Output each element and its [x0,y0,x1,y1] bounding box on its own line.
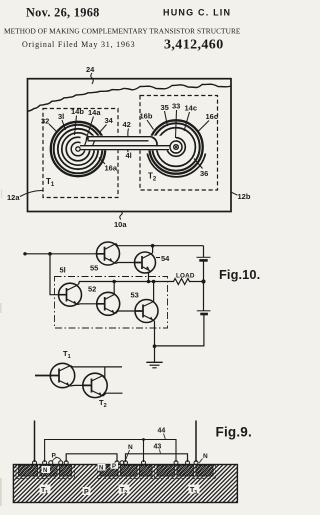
wire B2 down and left along bottom rail [155,314,204,346]
svg-text:N: N [128,444,133,451]
svg-text:54: 54 [161,254,170,263]
wire T2 collector up to rail [103,367,105,377]
svg-text:5l: 5l [60,266,66,275]
wire Q52 collector up to output rail [113,282,115,295]
svg-text:14b: 14b [71,107,84,116]
wire resistor to battery column [192,281,204,283]
label T1 (equiv) [63,349,71,360]
header date [26,5,100,19]
input terminal [23,252,26,255]
node output rail dot at Q52 [112,280,116,284]
wavy oxide boundary line 24 [28,84,231,111]
surface contacts [33,461,199,465]
transistor Q55 [97,242,120,265]
svg-text:52: 52 [88,285,96,294]
label 53 [131,291,139,300]
ground [146,362,162,368]
wire T1 collector rail [71,366,123,367]
dash-dot structure box [55,277,168,329]
svg-text:Original Filed May 31, 1963: Original Filed May 31, 1963 [22,40,135,49]
svg-text:14a: 14a [88,108,101,117]
label Fig.9 [216,425,252,440]
svg-text:16a: 16a [105,164,118,173]
svg-text:16c: 16c [206,112,219,121]
label 16a + leader [99,158,118,173]
label 54 + leader [156,254,170,263]
wire Q55 emitter to base of Q54 [116,263,135,264]
label 14c + leader [184,104,197,132]
battery B1 [197,257,211,260]
label P comma [52,453,62,462]
label 31 + leader [58,112,66,130]
node battery mid junction dot [201,279,205,283]
wire Q55 collector to top rail [116,244,118,246]
wire Q51 collector to output rail [78,282,80,286]
wire top rail down to battery B1 [203,246,205,258]
label T2 [148,172,157,183]
electrode lead right [195,421,197,463]
transistor Q52 [97,292,120,315]
svg-text:14c: 14c [185,104,198,113]
LOAD label [176,273,195,280]
diffusion regions (hatched) [16,465,216,480]
interconnect bus 42 (upper strip) [81,136,177,151]
label 42 + leader [123,120,131,137]
scan smudges [0,190,2,506]
label 14b + leader [71,107,84,135]
label 33 + leader [172,102,180,139]
transistor T1 rings [51,122,105,176]
label halos [40,463,200,495]
header filing line [22,40,135,49]
svg-text:44: 44 [158,428,166,435]
wire T2 emitter rail [103,393,123,396]
label 36 + leader [194,159,208,179]
node ground junction dot [153,344,157,348]
resistor LOAD [172,279,192,285]
label 52 [88,285,96,294]
substrate outline 10a [28,79,232,212]
svg-text:HUNG C. LIN: HUNG C. LIN [163,8,231,18]
svg-text:10a: 10a [114,220,127,229]
svg-text:Fig.9.: Fig.9. [216,425,252,440]
label T3 slab [190,487,197,496]
transistor Q54 [135,252,156,273]
transistor T2 (equiv) [83,373,107,397]
header patent number [164,38,224,53]
wire J1 down to base of Q51 [50,254,59,295]
label 55 [90,264,98,273]
svg-text:34: 34 [105,116,114,125]
label N inside slab mid [99,466,103,472]
header inventor name [163,8,231,18]
wire Q54 emitter down to output rail [149,272,152,282]
interconnect bus 41 (lower strip) [80,146,172,150]
top rail wire [118,245,204,247]
svg-text:METHOD OF MAKING COMPLEMENTARY: METHOD OF MAKING COMPLEMENTARY TRANSISTO… [4,27,241,36]
node J1 junction dot [48,252,52,256]
label 51 [60,266,66,275]
battery B2 [197,311,211,314]
wire Q53 collector up to output rail [153,282,155,302]
svg-text:Fig.10.: Fig.10. [219,267,260,282]
label P slab [84,489,89,496]
interconnect wire 43 left [66,454,117,462]
label N with leader [126,444,133,459]
node top-rail junction dot [151,244,155,248]
svg-text:32: 32 [41,117,49,126]
svg-text:3l: 3l [58,112,64,121]
label N right of right electrode [199,453,208,463]
svg-text:53: 53 [131,291,139,300]
label 35 + leader [161,103,169,126]
label 34 + leader [99,116,114,133]
svg-text:12a: 12a [7,193,20,202]
transistor T1 (equiv) [35,363,75,387]
wire Q52 emitter to base of Q53 [116,311,135,314]
svg-text:36: 36 [200,169,208,178]
label P inside slab mid [112,464,116,470]
svg-text:16b: 16b [140,112,153,121]
svg-text:24: 24 [86,65,95,74]
wire B1 to mid node [203,260,205,281]
dashed region T1 [43,109,118,198]
label T1 slab [41,487,48,496]
transistor Q53 [135,300,158,323]
interconnect wire 43 right [126,454,188,462]
label 41 + leader [126,150,132,161]
interconnect wire 44 [45,438,176,462]
svg-text:12b: 12b [238,192,251,201]
svg-text:4l: 4l [126,151,132,160]
wire mid node to battery B2 [203,282,205,311]
label 16c + leader [199,112,219,131]
label T1 [46,177,55,188]
dashed region T2 [140,96,218,191]
label N inside slab left [43,468,47,474]
label 10a + leader [114,212,127,230]
label 24 [86,65,95,84]
wire Q51 emitter to base of Q52 [78,303,97,306]
wire Q54 collector up to top rail [152,246,154,253]
wire Q53 emitter down to ground rail [153,321,156,347]
svg-text:P: P [112,464,116,470]
electrode lead left [34,421,36,463]
svg-text:N: N [203,453,208,460]
wire T1 emitter to T2 base [71,384,83,387]
svg-text:3,412,460: 3,412,460 [164,38,224,53]
svg-text:43: 43 [154,444,162,451]
label 12a + leader [7,190,43,202]
svg-text:42: 42 [123,120,131,129]
wire down to ground [154,346,156,362]
svg-text:N: N [99,466,103,472]
transistor T2 rings [147,120,205,177]
label Fig.10 [219,267,260,282]
svg-text:35: 35 [161,103,169,112]
svg-text:N: N [43,468,47,474]
svg-text:P: P [84,489,89,496]
output rail wire [79,281,172,283]
svg-text:33: 33 [172,102,180,111]
label 44 + leader [158,428,166,440]
svg-text:LOAD: LOAD [176,273,195,280]
T2 emitter contact center [170,141,182,153]
label 14a + leader [86,108,101,140]
semiconductor slab [13,465,237,503]
transistor Q51 [59,283,82,306]
svg-text:55: 55 [90,264,98,273]
label 32 + leader [41,117,57,132]
label T2 slab [120,487,127,496]
label 43 + leader [154,444,162,454]
label 12b + leader [231,192,251,201]
node output rail dot at Q54 emitter [147,280,156,284]
label 16b + leader [140,112,154,130]
svg-text:Nov. 26, 1968: Nov. 26, 1968 [26,5,100,19]
label T2 (equiv) [99,398,107,409]
wire input to base of Q55 [25,253,97,255]
header title [4,27,241,36]
